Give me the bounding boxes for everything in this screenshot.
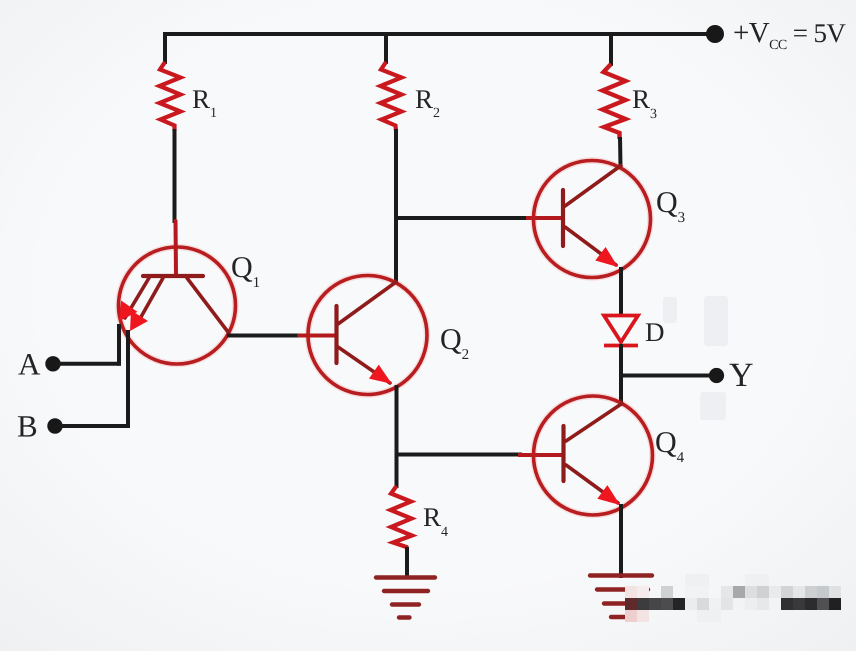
node: VCC terminal dot bbox=[706, 25, 724, 43]
wire: +VCC top rail bbox=[163, 32, 716, 36]
wire: R1 to Q1 bbox=[173, 129, 177, 223]
resistor R4 bbox=[391, 486, 413, 549]
wire: input B horizontal bbox=[58, 424, 128, 428]
wire: junction to Q4 base bbox=[395, 453, 523, 457]
wire: Q4 base lead (red) bbox=[518, 453, 564, 457]
resistor R3 bbox=[603, 64, 626, 139]
node: Q2 collector junction to Q3 base bbox=[394, 216, 530, 220]
svg-text:+VCC = 5V: +VCC = 5V bbox=[733, 17, 846, 53]
wire: rail drop to R3 bbox=[609, 32, 613, 66]
wire: R4 to ground bbox=[405, 547, 409, 578]
resistor R2 bbox=[381, 62, 402, 131]
wire: Q3 base lead (red) bbox=[526, 216, 563, 220]
ghost watermark smudges near Y bbox=[663, 296, 728, 420]
diode D bbox=[604, 316, 638, 346]
svg-text:D: D bbox=[645, 317, 665, 347]
transistor Q4 (pull-down) bbox=[534, 396, 653, 515]
wire: rail drop to R2 bbox=[384, 32, 388, 64]
input A terminal dot bbox=[45, 356, 60, 371]
wire: Q1 collector to Q2 base bbox=[227, 334, 303, 338]
wire: R2 down through node to Q2 collector bbox=[394, 129, 398, 284]
wire: Q2 emitter down to lower junction bbox=[395, 385, 399, 457]
wire: input A vertical to Q1 emitter bbox=[117, 324, 121, 366]
wire: diode to output junction bbox=[619, 344, 623, 377]
resistor R1 bbox=[160, 62, 181, 131]
ground (under Q4) bbox=[590, 576, 652, 618]
node: Y terminal dot bbox=[709, 368, 724, 383]
svg-text:Y: Y bbox=[729, 357, 754, 394]
ground (under R4) bbox=[376, 578, 435, 618]
input B terminal dot bbox=[47, 418, 62, 433]
wire: Q4 emitter to ground bbox=[619, 504, 623, 578]
svg-text:B: B bbox=[17, 409, 38, 444]
wire: junction down to Q4 collector bbox=[619, 374, 623, 406]
wire: rail drop to R1 bbox=[163, 32, 167, 64]
svg-text:A: A bbox=[18, 347, 41, 382]
wire: R3 to Q3 collector bbox=[618, 137, 623, 167]
wire: output junction to Y bbox=[621, 374, 714, 378]
wire: input B vertical to Q1 emitter bbox=[126, 330, 130, 428]
wire: input A horizontal bbox=[56, 362, 119, 366]
wire: junction down to R4 bbox=[395, 453, 399, 488]
transistor Q3 (pull-up) bbox=[534, 161, 651, 278]
transistor Q2 (phase splitter) bbox=[299, 276, 427, 395]
wire: Q3 emitter to diode bbox=[619, 267, 623, 316]
pixelated watermark mosaic (bottom right) bbox=[625, 574, 841, 622]
transistor Q1 (multi-emitter input) bbox=[119, 221, 236, 364]
